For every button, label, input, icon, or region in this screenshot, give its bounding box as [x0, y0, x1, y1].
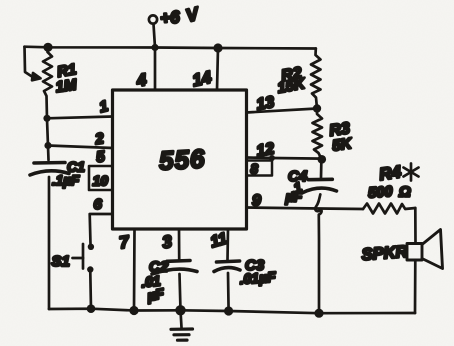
- node pin2 junction: [44, 142, 51, 149]
- node pin1 junction: [43, 115, 50, 122]
- wire pin5-pin10 short loop box: [89, 166, 113, 190]
- svg-text:.01µF: .01µF: [239, 269, 277, 288]
- resistor R3: [313, 109, 323, 160]
- svg-text:+6: +6: [160, 8, 181, 28]
- wire pin6 to switch: [90, 214, 113, 244]
- terminal +6V: [149, 15, 157, 23]
- node ground junction: [175, 305, 185, 315]
- node C4-rail junction: [314, 309, 323, 318]
- svg-text:1M: 1M: [55, 76, 79, 96]
- node R1 top junction: [43, 43, 52, 52]
- resistor R4: [363, 204, 415, 214]
- svg-text:6: 6: [94, 196, 103, 213]
- wire +6V to rail: [154, 24, 156, 48]
- wire top rail: [25, 47, 316, 49]
- svg-text:9: 9: [252, 193, 261, 210]
- svg-text:8: 8: [251, 162, 259, 177]
- wire pin3 to C2: [178, 229, 181, 260]
- wire pin13: [247, 109, 318, 113]
- wire pin14: [217, 48, 218, 90]
- wire pin4: [154, 48, 157, 91]
- wire pin8 short to pin12 box: [247, 161, 273, 176]
- wire R1 to C1: [47, 119, 49, 160]
- node R2-R3 junction: [313, 104, 321, 112]
- svg-text:S1: S1: [52, 253, 70, 270]
- wire speaker to bottom rail: [414, 260, 417, 313]
- svg-text:R4: R4: [378, 162, 403, 184]
- svg-text:µF: µF: [145, 285, 166, 304]
- wire pin11 to C3: [226, 229, 229, 260]
- speaker SPKR: [407, 244, 422, 261]
- wire R1 wiper arm: [25, 47, 34, 78]
- capacitor C1: [34, 161, 65, 165]
- IC U1 556 body: [113, 90, 247, 229]
- node +6V junction: [151, 44, 158, 51]
- wire pin1: [47, 117, 113, 119]
- node switch-rail junction: [87, 304, 96, 313]
- node pin14 junction: [213, 43, 222, 52]
- svg-text:5K: 5K: [331, 135, 354, 155]
- svg-text:10: 10: [93, 173, 109, 189]
- resistor R1: [43, 47, 52, 119]
- capacitor C4: [320, 159, 323, 178]
- wire pin7: [133, 229, 136, 311]
- ground: [181, 310, 182, 327]
- wire bottom rail: [49, 309, 415, 314]
- svg-text:556: 556: [158, 143, 206, 175]
- svg-text:SPKR: SPKR: [361, 243, 408, 264]
- wire C1 to bottom rail: [48, 177, 51, 309]
- capacitor C3: [217, 261, 240, 262]
- wire pin12: [247, 158, 322, 159]
- svg-text:13: 13: [255, 94, 276, 114]
- resistor R2: [311, 49, 321, 109]
- wire pin9: [247, 208, 364, 210]
- node R3-C4 junction: [318, 155, 327, 164]
- wire switch to bottom rail: [89, 273, 92, 310]
- wire C3 to bottom rail: [227, 273, 230, 311]
- svg-text:µF: µF: [285, 189, 303, 205]
- R1 wiper arrowhead: [32, 73, 41, 80]
- node pin7-rail junction: [129, 306, 138, 315]
- R4 asterisk: [404, 164, 419, 181]
- capacitor C2: [167, 259, 190, 263]
- node pin8 junction: [269, 155, 275, 161]
- node C3-rail junction: [224, 306, 233, 315]
- wire pin2: [48, 146, 113, 149]
- wire R4 to speaker: [414, 208, 417, 244]
- svg-text:.1µF: .1µF: [52, 173, 80, 188]
- svg-text:500: 500: [368, 184, 393, 202]
- switch S1: [82, 244, 85, 269]
- wire C2 to bottom rail: [180, 274, 181, 310]
- svg-text:Ω: Ω: [398, 184, 411, 201]
